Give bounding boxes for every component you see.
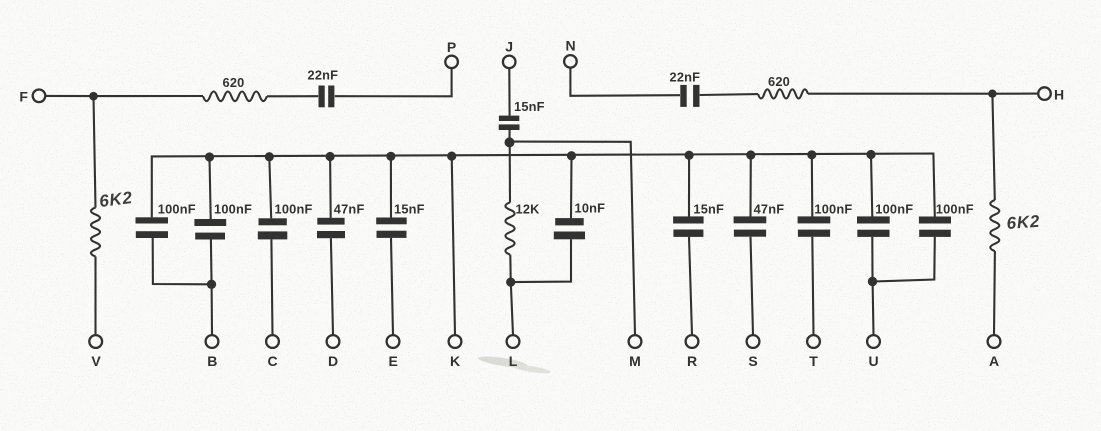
svg-text:R: R [687, 353, 697, 369]
svg-text:F: F [19, 89, 28, 105]
capacitor C 100nF (B column) [194, 219, 226, 226]
wire F node down to 6K2 [94, 96, 96, 207]
terminal N [564, 55, 577, 68]
capacitor C 15nF (E column) [376, 218, 407, 225]
node above U [868, 277, 877, 286]
wire bus to cap E [390, 156, 392, 217]
svg-text:100nF: 100nF [936, 201, 974, 216]
resistor R 12K [505, 202, 514, 254]
wire 6K2 to terminal V [94, 257, 96, 335]
node above B [207, 280, 216, 289]
node bus-K [447, 152, 456, 161]
wire cap U to node above U [871, 237, 873, 278]
wire node to R 12K [509, 142, 511, 202]
node at F branch [89, 92, 98, 101]
wire C2 to node [508, 130, 510, 140]
resistor R 620 (right) [758, 89, 808, 98]
svg-text:100nF: 100nF [814, 201, 852, 216]
wire cap R to terminal R [689, 237, 692, 335]
wire cap 10nF to node above L [511, 239, 571, 282]
terminal M [629, 335, 642, 348]
wire 6K2 to terminal A [993, 251, 996, 335]
terminal C [266, 335, 279, 348]
wire bus to cap 10nF [570, 156, 573, 219]
capacitor C 22nF (right) [680, 85, 686, 107]
svg-text:U: U [868, 353, 878, 369]
svg-text:A: A [989, 353, 999, 369]
wire H node down to 6K2 [992, 94, 994, 201]
capacitor C 15nF (R column) [673, 216, 704, 223]
wire last cap bottom to node above U [873, 237, 935, 282]
wire cap T to terminal T [812, 237, 813, 335]
terminal U [867, 335, 880, 348]
wire N to C3 [570, 68, 680, 96]
terminal B [206, 335, 219, 348]
svg-text:H: H [1054, 87, 1064, 103]
svg-text:B: B [207, 353, 217, 369]
wire bus to cap S [749, 155, 751, 217]
svg-text:620: 620 [223, 75, 245, 90]
resistor R 620 (left) [203, 92, 267, 102]
svg-text:100nF: 100nF [214, 201, 252, 216]
capacitor C 15nF (center) [499, 116, 519, 121]
svg-text:N: N [566, 38, 576, 54]
node bus-C [265, 152, 274, 161]
svg-text:D: D [328, 353, 338, 369]
wire cap C to terminal C [271, 239, 272, 335]
terminal R [686, 335, 699, 348]
svg-text:100nF: 100nF [158, 201, 196, 216]
wire F to node [45, 95, 93, 97]
terminal L [507, 335, 520, 348]
wire bus to cap D [329, 157, 332, 218]
terminal A [988, 335, 1001, 348]
wire bus to cap B [210, 157, 211, 219]
capacitor C 47nF (D column) [317, 218, 344, 225]
node bus-R [685, 151, 694, 160]
bus wire [152, 154, 935, 218]
capacitor C 100nF (T column) [798, 216, 831, 223]
capacitor C 100nF (first, left) [136, 217, 169, 223]
node bus-B [205, 152, 214, 161]
terminal H [1038, 87, 1051, 100]
terminal F [33, 90, 46, 103]
svg-text:M: M [629, 353, 641, 369]
svg-text:47nF: 47nF [754, 201, 785, 216]
svg-text:T: T [809, 353, 818, 369]
svg-text:15nF: 15nF [693, 201, 724, 216]
node bus-10nF [567, 151, 576, 160]
terminal K [449, 335, 462, 348]
svg-text:15nF: 15nF [394, 201, 425, 216]
wire cap S to terminal S [751, 237, 754, 335]
svg-text:15nF: 15nF [514, 99, 545, 114]
wire center node to M [510, 142, 636, 335]
node bus-D [326, 152, 335, 161]
svg-text:22nF: 22nF [308, 68, 339, 83]
wire bus to cap R [688, 155, 690, 216]
svg-text:S: S [748, 353, 757, 369]
wire cap E to terminal E [391, 238, 393, 335]
terminal S [747, 335, 760, 348]
svg-text:10nF: 10nF [575, 201, 606, 216]
terminal T [807, 335, 820, 348]
svg-text:P: P [447, 39, 456, 55]
node above L [506, 278, 515, 287]
wire node to R1 [94, 95, 204, 97]
wire node to terminal L [511, 282, 513, 335]
node at H branch [988, 90, 996, 98]
wire node to terminal B [211, 284, 213, 335]
svg-text:C: C [267, 353, 277, 369]
wire bus to cap C [269, 157, 271, 219]
capacitor C 47nF (S column) [734, 216, 767, 223]
svg-text:J: J [505, 38, 513, 54]
wire C1 to P [335, 68, 452, 96]
wire C3 to R2 [700, 93, 758, 96]
wire R1 to C1 [267, 95, 318, 97]
svg-text:V: V [91, 353, 101, 369]
terminal D [327, 335, 340, 348]
node center [505, 137, 515, 147]
resistor R 6K2 (right) [990, 200, 999, 251]
svg-text:K: K [450, 353, 460, 369]
capacitor C 22nF (left) [319, 86, 325, 108]
svg-text:L: L [509, 353, 518, 369]
terminal P [445, 56, 458, 69]
node bus-U [866, 150, 875, 159]
svg-text:100nF: 100nF [275, 201, 313, 216]
terminal E [387, 335, 400, 348]
wire cap1 bottom to node above B [153, 238, 209, 284]
wire cap D to terminal D [331, 238, 333, 335]
wire R2 to node H [808, 93, 992, 95]
node bus-T [807, 150, 816, 159]
wire J to C2 [508, 68, 510, 115]
svg-text:E: E [389, 353, 398, 369]
capacitor C 10nF [555, 218, 584, 225]
capacitor C 100nF (C column) [259, 218, 287, 225]
wire node to H [992, 93, 1038, 95]
svg-text:620: 620 [768, 74, 790, 89]
node bus-S [746, 150, 755, 159]
wire cap B to node above B [210, 240, 213, 281]
svg-text:6K2: 6K2 [1006, 212, 1041, 233]
capacitor C 100nF (last, right) [919, 217, 951, 224]
terminal J [503, 56, 516, 69]
wire 12K to node L [509, 255, 512, 280]
wire bus to cap T [811, 155, 814, 217]
svg-text:100nF: 100nF [875, 201, 913, 216]
wire bus to terminal K [452, 156, 455, 335]
node bus-E [386, 152, 395, 161]
resistor R 6K2 (left) [91, 208, 100, 257]
terminal V [89, 335, 102, 348]
wire bus to cap U [871, 155, 872, 217]
capacitor C 100nF (U column) [857, 216, 890, 223]
svg-text:12K: 12K [516, 201, 541, 216]
svg-text:47nF: 47nF [334, 201, 365, 216]
svg-text:6K2: 6K2 [98, 188, 134, 211]
svg-text:22nF: 22nF [670, 70, 701, 85]
wire node to terminal U [872, 282, 875, 335]
